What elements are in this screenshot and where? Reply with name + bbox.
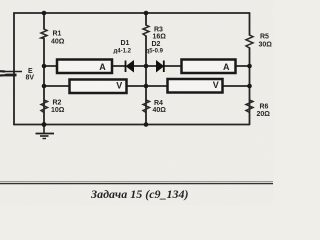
wire ammeter row left bbox=[44, 65, 57, 67]
node top x44 bbox=[42, 11, 47, 16]
wire D1 to mid node bbox=[134, 65, 147, 67]
resistor R4 bbox=[143, 100, 150, 113]
node A-row mid bbox=[144, 64, 149, 69]
ground bbox=[36, 125, 55, 139]
wire top rail bbox=[14, 12, 250, 14]
wire A1 to D1 bbox=[113, 65, 126, 67]
caption rule bbox=[0, 181, 273, 183]
wire V2 to right rail bbox=[223, 85, 250, 87]
ammeter A2 bbox=[182, 60, 236, 74]
wire middle rail upper bbox=[145, 13, 147, 25]
node V-row right bbox=[247, 84, 252, 89]
wire D2 to A2 bbox=[164, 65, 181, 67]
node bottom ground bbox=[42, 122, 47, 127]
resistor R2 bbox=[41, 100, 48, 113]
node V-row x44 bbox=[42, 84, 47, 89]
paper noise overlay bbox=[0, 0, 1, 1]
node bottom mid bbox=[144, 122, 149, 127]
wire branch x=44 mid bbox=[43, 39, 45, 125]
ammeter A1 bbox=[57, 60, 112, 74]
node top mid bbox=[144, 11, 149, 16]
wire V1 to mid rail bbox=[127, 85, 146, 87]
diode D2 bbox=[157, 61, 164, 73]
wire right rail upper bbox=[249, 13, 251, 35]
node A-row x44 bbox=[42, 64, 47, 69]
resistor R3 bbox=[143, 25, 149, 36]
wire middle rail lower bbox=[145, 36, 147, 125]
voltmeter V1 bbox=[70, 80, 127, 94]
resistor R5 bbox=[246, 35, 253, 48]
node A-row right bbox=[247, 64, 252, 69]
wire mid rail to V2 bbox=[146, 85, 167, 87]
battery E bbox=[0, 71, 22, 75]
diode D1 bbox=[126, 61, 134, 73]
wire voltmeter row left bbox=[44, 85, 69, 87]
wire branch x=44 upper bbox=[43, 13, 45, 29]
voltmeter V2 bbox=[168, 79, 223, 93]
wire bottom rail bbox=[14, 124, 249, 126]
wire right rail lower bbox=[249, 48, 251, 125]
node V-row mid bbox=[144, 84, 149, 89]
wire left battery rail bbox=[13, 13, 15, 125]
resistor R1 bbox=[41, 29, 47, 39]
wire A2 to right rail bbox=[236, 65, 250, 67]
wire mid node to D2 bbox=[146, 65, 156, 67]
resistor R6 bbox=[246, 100, 253, 113]
